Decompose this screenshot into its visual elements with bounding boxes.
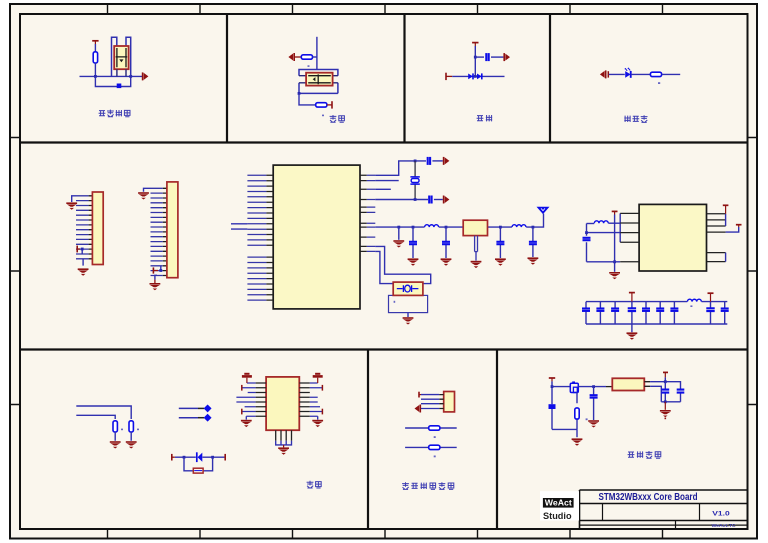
GND wire xyxy=(650,386,661,402)
wire xyxy=(432,160,442,162)
block divider: top row vertical 1 xyxy=(226,14,228,143)
bottom wire to pin5 xyxy=(587,261,621,263)
testpoint bar row2 left xyxy=(241,385,243,391)
inductor L2 xyxy=(512,225,526,227)
gate vertical with resistor R9 xyxy=(576,393,578,430)
J3 left wires xyxy=(236,383,255,416)
power bar xyxy=(612,210,618,212)
flash chip U2 body xyxy=(639,204,706,271)
U1 left pin wires xyxy=(247,175,266,300)
power bar xyxy=(736,224,742,226)
node junction xyxy=(412,226,415,229)
tiny designators xyxy=(434,436,436,438)
J3 left pin tips xyxy=(256,383,267,416)
bulk capacitor x=710.5 xyxy=(710,302,712,324)
label: dian yuan zhuan huan xyxy=(628,452,635,457)
U1 left pin tips xyxy=(266,175,273,300)
label: zhi shi deng xyxy=(624,116,630,122)
third row line xyxy=(580,524,748,526)
node junction xyxy=(414,160,417,163)
svg-text:STM32WBxxx Core Board: STM32WBxxx Core Board xyxy=(599,492,698,503)
capacitor C5 xyxy=(445,227,447,258)
J3 shield pins xyxy=(276,430,292,441)
J3 right pin tips xyxy=(299,383,310,416)
TVS loop wires xyxy=(184,457,213,471)
capacitor C1 xyxy=(486,53,488,61)
testpoint bar left xyxy=(445,73,447,80)
wire xyxy=(327,104,332,106)
wire xyxy=(313,56,317,58)
wire case to ground xyxy=(407,313,409,317)
capacitor x=600.4 xyxy=(599,302,601,324)
USB connector J3 body xyxy=(266,377,299,430)
MCU U1 body xyxy=(273,165,360,309)
wire row8 left to ground xyxy=(245,416,247,419)
margin tick marks top xyxy=(108,4,663,14)
tiny designator xyxy=(121,429,123,431)
label: fu wei dian lu xyxy=(99,111,106,116)
power arrow right xyxy=(444,196,450,204)
resistor R2 xyxy=(301,55,312,59)
wire button left prong xyxy=(112,37,117,76)
ground xyxy=(588,421,599,428)
wire A xyxy=(76,406,131,419)
title row line xyxy=(580,503,748,505)
capacitor C10 xyxy=(593,387,595,420)
cell divider 1 xyxy=(602,504,604,521)
top rail xyxy=(586,301,727,303)
node junction xyxy=(474,56,477,59)
power arrow right xyxy=(444,157,450,165)
power bar xyxy=(708,292,714,294)
tiny designator xyxy=(690,305,692,307)
bottom rail xyxy=(586,323,727,325)
J4 pin tips xyxy=(439,395,444,409)
RF wire xyxy=(375,214,543,228)
push button pin stubs xyxy=(117,69,126,76)
svg-text:WeAct: WeAct xyxy=(545,498,572,508)
ground xyxy=(66,203,77,210)
node junction xyxy=(94,75,97,78)
capacitor C6 xyxy=(499,227,501,258)
wire pins 17-18 tie xyxy=(160,266,162,271)
ground xyxy=(78,269,89,276)
node junction xyxy=(474,75,477,78)
wire to ground xyxy=(664,402,666,410)
right rail pins 1-3 xyxy=(725,214,727,226)
ground xyxy=(393,241,404,248)
wire xyxy=(491,56,503,58)
wire pin4 to power xyxy=(726,227,739,232)
wire OSC32 A xyxy=(375,246,430,283)
crystal Y1 plates xyxy=(410,177,419,184)
svg-text:Studio: Studio xyxy=(543,511,572,522)
crystal Y1 link xyxy=(414,161,416,200)
testpoint bar right xyxy=(224,454,226,461)
ground xyxy=(609,273,620,280)
svg-text:V1.0: V1.0 xyxy=(712,511,730,518)
wire pin14 to ground xyxy=(82,259,84,266)
power bar xyxy=(629,292,635,294)
wire stubs to left nets xyxy=(231,224,247,229)
ground xyxy=(126,442,137,449)
J2 pin wires xyxy=(151,188,163,275)
node junction xyxy=(613,260,616,263)
node junction xyxy=(445,226,448,229)
wire pins 12-13 tie xyxy=(81,249,83,254)
node junction xyxy=(211,456,214,459)
transistor Q1 xyxy=(570,383,578,392)
tiny designator xyxy=(394,301,396,303)
power bar VDD xyxy=(472,43,478,46)
ground xyxy=(627,333,638,340)
input vertical wire xyxy=(551,381,553,429)
inductor L4 xyxy=(687,299,701,301)
wire B xyxy=(76,415,115,419)
capacitor C12 xyxy=(680,393,682,402)
wire pins1-4 tie xyxy=(619,213,621,242)
node junction xyxy=(664,380,667,383)
J1 pin wires xyxy=(76,196,89,259)
ground xyxy=(660,411,671,418)
bulk capacitor C11 xyxy=(664,382,666,402)
RF filter U3 body xyxy=(463,220,487,235)
tiny designator xyxy=(322,115,324,117)
capacitor x=660.2 xyxy=(659,302,661,324)
USB data wire D+ xyxy=(179,407,198,409)
J4 wires xyxy=(421,395,439,409)
fuse F1 xyxy=(193,468,203,473)
power bar xyxy=(723,204,729,206)
resistor R1 xyxy=(93,52,97,63)
margin tick marks right xyxy=(748,138,758,405)
VOUT wire xyxy=(650,382,680,390)
capacitor C2 xyxy=(428,157,430,165)
J2 pin tips xyxy=(163,188,167,275)
push button SW2 body xyxy=(306,73,333,86)
tiny designator xyxy=(658,82,660,84)
inductor L1 xyxy=(425,225,439,227)
block divider: bottom row vertical 2 xyxy=(496,350,498,530)
push button SW2 actuator arrow xyxy=(313,77,316,81)
ground xyxy=(138,193,149,200)
wire to ground xyxy=(576,429,578,437)
block divider: top row bottom edge xyxy=(20,141,748,143)
LED D3 xyxy=(625,71,631,78)
resistor R3 xyxy=(316,103,327,107)
second row line xyxy=(580,520,748,522)
net diamond xyxy=(204,414,212,422)
wire pin1 to ground xyxy=(72,196,76,202)
ground xyxy=(495,259,506,266)
capacitor x=586 xyxy=(585,302,587,324)
node junction xyxy=(414,198,417,201)
wire xyxy=(294,56,301,58)
capacitor C3 xyxy=(429,196,431,204)
svg-text:WeAct.TC: WeAct.TC xyxy=(712,523,737,528)
block divider: top row vertical 3 xyxy=(549,14,551,143)
push button SW1 body xyxy=(114,46,128,69)
node junction xyxy=(183,456,186,459)
VBUS arrow left xyxy=(242,374,252,377)
node junction xyxy=(129,75,132,78)
ground xyxy=(441,259,452,266)
resistor R6 xyxy=(129,421,133,432)
push button SW2 pin stubs xyxy=(299,76,338,83)
label: jie kou xyxy=(307,481,314,488)
testpoint arrow left xyxy=(288,53,294,61)
wire stub pin xyxy=(375,180,398,182)
testpoint second bar xyxy=(607,71,609,77)
margin tick marks bottom xyxy=(108,529,663,539)
push button SW1 actuator arrow xyxy=(119,59,123,62)
node junction xyxy=(159,269,162,272)
wire top U of button xyxy=(299,70,338,76)
wire nRST horizontal xyxy=(80,75,143,77)
ground xyxy=(572,439,583,446)
J3 right wires xyxy=(310,383,323,416)
node junction xyxy=(397,226,400,229)
net marker blue square xyxy=(117,84,122,89)
wire xyxy=(94,44,96,53)
capacitor x=646 xyxy=(645,302,647,324)
wire pin3 row xyxy=(587,232,621,234)
power bar at pin 12 xyxy=(76,246,78,253)
wire to capacitor xyxy=(475,56,484,58)
wire pin19 to ground xyxy=(155,275,157,279)
bulk capacitor C9 xyxy=(549,404,556,409)
resistor R8 xyxy=(429,445,440,449)
label: she zhi xyxy=(330,115,337,122)
J1 pin tips xyxy=(89,196,93,259)
regulator U4 body xyxy=(612,378,644,390)
output bottom rail xyxy=(661,401,680,403)
capacitor x=724.7 xyxy=(724,302,726,324)
wire OSC32 B xyxy=(375,251,393,283)
U4 output pins xyxy=(644,382,650,387)
wire to ground xyxy=(631,324,633,332)
USB data wire D- xyxy=(179,417,198,419)
resistor R5 xyxy=(113,421,117,432)
vertical rail from power bar to ground xyxy=(614,215,616,272)
ground xyxy=(150,284,161,291)
testpoint bar xyxy=(331,101,333,108)
capacitor x=674.4 xyxy=(673,302,675,324)
ground xyxy=(408,259,419,266)
bottom wire xyxy=(552,428,577,430)
wire xyxy=(631,73,650,75)
wire to resistor xyxy=(299,93,316,105)
U2 left pins xyxy=(620,213,639,261)
wire bottom loop xyxy=(95,76,130,86)
node junction xyxy=(298,92,301,95)
wire button right prong xyxy=(126,37,131,76)
wire xyxy=(446,75,452,77)
wire xyxy=(662,73,681,75)
tiny designator xyxy=(308,65,310,67)
push button SW2 contacts xyxy=(308,74,331,84)
left rail vertical xyxy=(586,224,588,262)
wire vertical xyxy=(474,46,476,76)
testpoint arrow right xyxy=(143,72,149,80)
testpoint bar row7 left xyxy=(241,409,243,415)
connector J2 body xyxy=(167,182,178,278)
crystal Y1 body xyxy=(411,179,419,183)
wire pin1 to ground xyxy=(144,188,151,192)
testpoint bar left xyxy=(171,454,173,461)
power bar input xyxy=(549,378,555,381)
TVS diode D4 xyxy=(196,452,198,462)
wire xyxy=(609,73,625,75)
connector J4 body xyxy=(444,392,455,412)
power bar pin1 xyxy=(418,392,420,398)
power bar VCC xyxy=(92,41,98,44)
wire OSC_OUT xyxy=(375,199,428,201)
wire vertical from net xyxy=(316,37,318,70)
diode D1 xyxy=(468,73,473,79)
resistor R4 xyxy=(650,72,661,76)
shield wires xyxy=(276,441,292,445)
crystal Y2 body xyxy=(393,282,423,295)
ground xyxy=(312,421,323,428)
node junction xyxy=(592,385,595,388)
wire xyxy=(94,63,96,76)
LED arrows xyxy=(625,68,630,71)
crystal Y2 symbol xyxy=(397,285,419,292)
net diamond xyxy=(204,404,212,412)
block divider: bottom row vertical 1 xyxy=(367,350,369,530)
capacitor C7 xyxy=(532,227,534,257)
power arrow right xyxy=(504,53,510,61)
margin tick marks left xyxy=(10,138,20,405)
push button SW1 contacts xyxy=(116,48,128,67)
WeAct logo black box xyxy=(543,498,574,508)
label: dian yuan xyxy=(477,116,484,121)
connector J1 body xyxy=(92,192,103,265)
wire OSC_IN up xyxy=(375,161,426,175)
U3 ground pins xyxy=(475,236,478,252)
TVS circuit top wire xyxy=(175,456,225,458)
U1 right pin wires xyxy=(367,175,376,251)
resistor R7 xyxy=(429,426,440,430)
WeAct Studio logo background xyxy=(540,491,579,520)
testpoint bar row2 right xyxy=(321,385,323,391)
VBUS arrow right xyxy=(313,374,323,377)
block divider: top row vertical 2 xyxy=(403,14,405,143)
resistor wires row2 xyxy=(405,446,457,448)
testpoint arrow left pin4 xyxy=(415,405,421,413)
ground xyxy=(471,262,482,269)
node junction xyxy=(585,231,588,234)
capacitor C8 xyxy=(583,238,591,240)
capacitor x=615.1 xyxy=(614,302,616,324)
wire xyxy=(115,432,131,441)
cell divider 3 xyxy=(675,521,677,530)
ground xyxy=(110,442,121,449)
ground xyxy=(241,421,252,428)
testpoint bar row7 right xyxy=(321,409,323,415)
ground xyxy=(403,318,414,325)
U2 right pins xyxy=(707,214,726,262)
wire stub pin xyxy=(375,188,391,190)
wire to ground xyxy=(398,227,400,240)
node junction xyxy=(81,248,84,251)
title table outline xyxy=(580,489,748,491)
ground xyxy=(528,258,539,265)
testpoint arrow left with bars xyxy=(600,70,606,78)
resistor wires row1 xyxy=(405,427,457,429)
wire xyxy=(434,199,443,201)
node junction xyxy=(499,226,502,229)
node junction xyxy=(532,226,535,229)
ground xyxy=(278,448,289,455)
cell divider 2 xyxy=(699,504,701,521)
bulk capacitor x=631.9 xyxy=(631,302,633,324)
U1 right pin tips xyxy=(360,175,367,251)
wire bottom xyxy=(452,75,504,77)
wire row8 right to ground xyxy=(317,416,319,419)
capacitor C4 xyxy=(412,227,414,258)
block divider: middle row bottom edge xyxy=(20,348,748,350)
power bar output xyxy=(663,371,668,373)
label: tiao shi xia zai jie kou xyxy=(402,482,409,489)
right rail pins 5-6 xyxy=(725,253,727,262)
node junction xyxy=(664,400,667,403)
power bar at pin 18 xyxy=(152,267,154,273)
main wire xyxy=(552,386,570,388)
antenna E1 xyxy=(538,207,549,213)
main wire to regulator xyxy=(578,386,606,388)
inductor L3 xyxy=(594,221,608,223)
tiny designator xyxy=(586,418,588,420)
coil L3 feed wire xyxy=(587,223,595,225)
node junction xyxy=(551,385,554,388)
crystal case outline xyxy=(389,295,428,312)
wire coil to pin2 xyxy=(608,222,620,224)
diode D2 xyxy=(477,73,482,79)
wire bottom U of button xyxy=(299,83,338,94)
